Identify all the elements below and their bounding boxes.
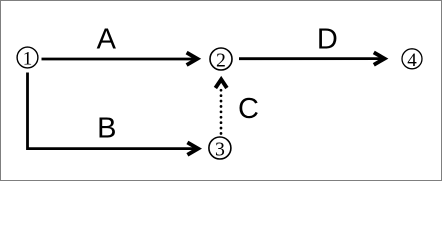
svg-text:B: B — [97, 113, 116, 145]
svg-text:A: A — [97, 24, 117, 56]
svg-text:2: 2 — [216, 50, 226, 72]
svg-text:4: 4 — [407, 50, 417, 71]
svg-text:3: 3 — [215, 139, 225, 161]
svg-text:D: D — [317, 24, 338, 56]
svg-text:1: 1 — [23, 49, 33, 70]
svg-text:C: C — [238, 93, 259, 125]
